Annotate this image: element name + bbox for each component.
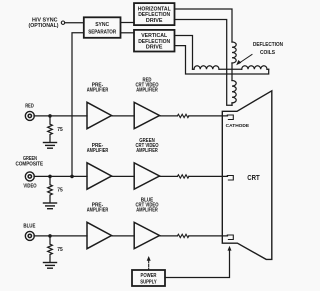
- wire blue input to pre-amplifier: [34, 235, 87, 237]
- svg-text:CATHODE: CATHODE: [226, 123, 250, 129]
- cathode pin blue inside CRT: [227, 235, 233, 240]
- label DEFLECTION COILS: [253, 42, 283, 56]
- wire horizontal drive output A to top of vertical-axis coil: [175, 9, 233, 42]
- resistor series red cathode drive: [177, 114, 188, 117]
- wire amplifier to series resistor (red): [160, 115, 178, 117]
- svg-text:DRIVE: DRIVE: [146, 18, 163, 24]
- label 75 (green): [57, 188, 63, 194]
- op-amp pre-amplifier blue: [87, 222, 112, 248]
- svg-text:CRT: CRT: [247, 175, 260, 182]
- svg-text:AMPLIFIER: AMPLIFIER: [136, 208, 158, 214]
- resistor series green cathode drive: [177, 175, 188, 178]
- ground green termination: [44, 203, 57, 209]
- terminal green video input connector: [25, 172, 34, 181]
- svg-text:COILS: COILS: [260, 50, 275, 56]
- label PRE-AMPLIFIER (green): [87, 143, 109, 154]
- block U2 HORIZONTAL DEFLECTION DRIVE: [134, 3, 175, 25]
- svg-text:DEFLECTION: DEFLECTION: [253, 42, 283, 48]
- svg-text:75: 75: [57, 247, 63, 253]
- svg-text:AMPLIFIER: AMPLIFIER: [136, 88, 158, 94]
- svg-text:(OPTIONAL): (OPTIONAL): [29, 23, 59, 29]
- label 75 (red): [57, 127, 63, 133]
- resistor 75 ohm blue termination: [48, 236, 53, 262]
- wire pre-amp to CRT video amplifier (blue): [112, 235, 135, 237]
- terminal red video input connector: [25, 111, 34, 120]
- node junction red termination tap: [48, 114, 52, 118]
- label PRE-AMPLIFIER (blue): [87, 203, 109, 214]
- svg-text:RED: RED: [25, 104, 34, 110]
- svg-text:COMPOSITE: COMPOSITE: [16, 162, 44, 168]
- svg-text:DRIVE: DRIVE: [146, 45, 163, 51]
- inductor L4 horizontal-axis deflection coil (right half): [242, 66, 267, 70]
- resistor 75 ohm green termination: [48, 176, 53, 202]
- wire horizontal drive output B (return) down right side: [175, 20, 233, 106]
- svg-text:AMPLIFIER: AMPLIFIER: [87, 208, 109, 214]
- wire coil line between halves: [231, 63, 233, 81]
- node junction on green composite line feeding sync separator: [70, 175, 74, 179]
- inductor L1 vertical-axis deflection coil (top half): [232, 42, 236, 63]
- cathode pin green inside CRT: [227, 176, 233, 181]
- op-amp BLUE CRT video amplifier: [134, 222, 159, 248]
- node junction blue termination tap: [48, 234, 52, 238]
- inductor L2 vertical-axis deflection coil (bottom half): [232, 81, 236, 103]
- wire red to CRT cathode: [189, 115, 228, 117]
- svg-text:VIDEO: VIDEO: [23, 184, 36, 190]
- wire power supply arrow to video amplifiers (dashed): [147, 256, 151, 270]
- wire coil bottom stub: [231, 103, 233, 105]
- svg-text:POWER: POWER: [141, 273, 157, 279]
- resistor 75 ohm red termination: [48, 116, 53, 142]
- block U1 SYNC SEPARATOR: [84, 17, 121, 38]
- wire pre-amp to CRT video amplifier (red): [112, 115, 135, 117]
- ground blue termination: [44, 263, 57, 269]
- cathode pin red inside CRT: [227, 115, 233, 120]
- svg-text:75: 75: [57, 127, 63, 133]
- resistor series blue cathode drive: [177, 234, 188, 237]
- label BLUE CRT VIDEO AMPLIFIER: [136, 197, 159, 213]
- wire pre-amp to CRT video amplifier (green): [112, 175, 135, 177]
- label H/V SYNC (OPTIONAL): [29, 17, 59, 29]
- ground red termination: [44, 143, 57, 149]
- label 75 (blue): [57, 247, 63, 253]
- wire sync separator to vertical deflection drive: [121, 32, 135, 34]
- wire H/V sync to sync separator: [65, 22, 84, 24]
- wire vertical drive output A to left end of horizontal-axis coil: [175, 36, 193, 70]
- svg-text:75: 75: [57, 188, 63, 194]
- wire horizontal coil line across crossing: [193, 68, 242, 70]
- wire composite tap to sync separator (from green video line): [72, 33, 84, 177]
- inductor L3 horizontal-axis deflection coil (left half): [194, 66, 219, 70]
- svg-text:SUPPLY: SUPPLY: [140, 279, 157, 285]
- op-amp GREEN CRT video amplifier: [134, 163, 159, 189]
- CRT tube outline: [222, 91, 271, 260]
- label BLUE input: [23, 223, 35, 229]
- label RED CRT VIDEO AMPLIFIER: [136, 77, 159, 93]
- block U3 VERTICAL DEFLECTION DRIVE: [134, 30, 175, 52]
- wire sync separator to horizontal deflection drive: [121, 22, 135, 24]
- wire red input to pre-amplifier: [34, 115, 87, 117]
- label CATHODE: [226, 123, 250, 129]
- terminal H/V sync input: [61, 21, 64, 24]
- wire label arrow to coils: [236, 55, 252, 66]
- label GREEN COMPOSITE VIDEO input: [16, 156, 44, 190]
- label RED input: [25, 104, 34, 110]
- svg-text:BLUE: BLUE: [23, 223, 35, 229]
- svg-text:AMPLIFIER: AMPLIFIER: [136, 148, 158, 154]
- op-amp pre-amplifier green: [87, 163, 112, 189]
- wire blue to CRT cathode: [189, 235, 228, 237]
- label GREEN CRT VIDEO AMPLIFIER: [136, 138, 159, 154]
- wire horizontal coil right stub: [267, 68, 269, 70]
- op-amp RED CRT video amplifier: [134, 102, 159, 128]
- svg-text:SYNC: SYNC: [95, 22, 109, 28]
- wire power supply to CRT anode: [165, 246, 232, 278]
- svg-text:AMPLIFIER: AMPLIFIER: [87, 148, 109, 154]
- node junction green termination tap: [48, 175, 52, 179]
- block PS1 POWER SUPPLY: [132, 270, 165, 286]
- wire green input to pre-amplifier: [34, 175, 87, 177]
- wire green to CRT cathode: [189, 175, 228, 177]
- label CRT: [247, 175, 260, 182]
- wire amplifier to series resistor (blue): [160, 235, 178, 237]
- label PRE-AMPLIFIER (red): [87, 83, 109, 94]
- wire vertical drive output B (return): [175, 46, 269, 74]
- terminal blue video input connector: [25, 231, 34, 240]
- svg-text:SEPARATOR: SEPARATOR: [88, 29, 116, 35]
- wire amplifier to series resistor (green): [160, 175, 178, 177]
- svg-text:AMPLIFIER: AMPLIFIER: [87, 88, 109, 94]
- op-amp pre-amplifier red: [87, 102, 112, 128]
